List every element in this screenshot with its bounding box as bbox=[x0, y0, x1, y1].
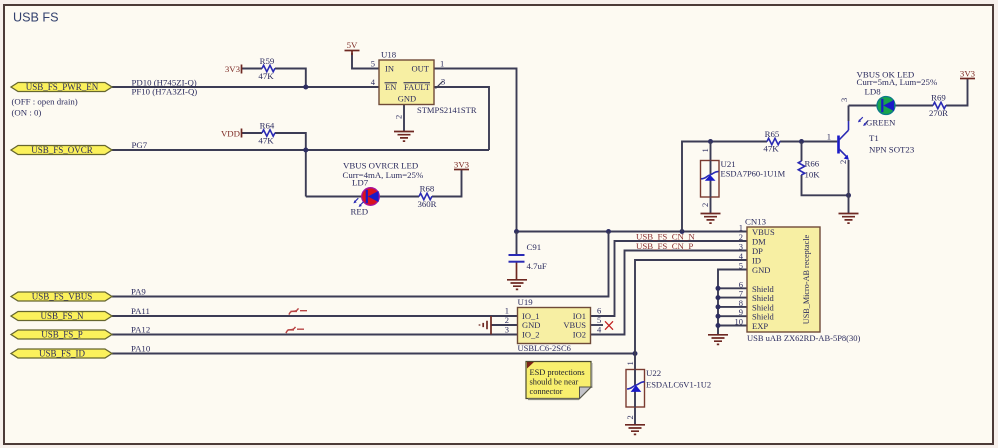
ground under U18 bbox=[394, 132, 414, 142]
svg-text:2: 2 bbox=[394, 115, 404, 119]
power 3V3 at R68 bbox=[454, 160, 470, 170]
svg-text:U21: U21 bbox=[721, 159, 736, 169]
node label PG7 bbox=[132, 140, 148, 150]
note ESD sticky bbox=[526, 362, 592, 400]
svg-text:USB_FS_CN_P: USB_FS_CN_P bbox=[636, 241, 693, 251]
svg-text:VBUS: VBUS bbox=[563, 320, 586, 330]
svg-text:USB_FS_OVCR: USB_FS_OVCR bbox=[31, 145, 93, 155]
wire USB_FS_OVCR row to FAULT corner bbox=[112, 149, 489, 151]
LED LD7 bbox=[343, 161, 424, 217]
wire CN13 GND pin 5 to shield chain bbox=[718, 270, 747, 335]
resistor R68 bbox=[417, 184, 436, 210]
ground under U21 bbox=[701, 214, 721, 224]
wire CN13 shield stubs bbox=[718, 288, 747, 325]
svg-text:U19: U19 bbox=[518, 297, 534, 307]
svg-text:47K: 47K bbox=[763, 144, 779, 154]
wire U19 GND pin 2 stub bbox=[491, 324, 518, 326]
svg-text:47K: 47K bbox=[258, 136, 274, 146]
svg-text:PA9: PA9 bbox=[131, 287, 146, 297]
ground under C91 bbox=[507, 280, 527, 290]
node label PD10/PF10 on PWR_EN wire bbox=[132, 78, 198, 97]
node label PA9 bbox=[131, 287, 146, 297]
port USB_FS_OVCR bbox=[11, 145, 112, 155]
svg-text:5: 5 bbox=[597, 315, 601, 325]
resistor R69 bbox=[929, 93, 948, 119]
wire C91 stems bbox=[516, 232, 518, 280]
svg-text:5V: 5V bbox=[347, 40, 358, 50]
svg-text:1: 1 bbox=[625, 361, 635, 365]
wire USB_FS_P PA12 row to U19 IO_2 bbox=[112, 334, 518, 336]
svg-text:360R: 360R bbox=[417, 199, 436, 209]
svg-text:2: 2 bbox=[838, 160, 848, 164]
svg-text:PA10: PA10 bbox=[131, 344, 151, 354]
svg-text:T1: T1 bbox=[869, 133, 879, 143]
svg-text:PA11: PA11 bbox=[131, 306, 150, 316]
svg-text:USB_Micro-AB receptacle: USB_Micro-AB receptacle bbox=[802, 234, 811, 324]
transient suppressor U21 bbox=[700, 148, 786, 207]
svg-text:IN: IN bbox=[385, 64, 394, 74]
wire U22 to ground stem bbox=[634, 407, 636, 425]
svg-text:R66: R66 bbox=[805, 159, 820, 169]
svg-text:RED: RED bbox=[351, 207, 369, 217]
svg-text:R65: R65 bbox=[765, 129, 780, 139]
wire USB_FS_ID PA10 row bbox=[112, 353, 635, 355]
title USB FS bbox=[13, 11, 59, 25]
svg-text:FAULT: FAULT bbox=[404, 82, 431, 92]
svg-text:VBUS OVRCR LED: VBUS OVRCR LED bbox=[343, 161, 418, 171]
node junction R59/PWR_EN bbox=[303, 85, 308, 90]
svg-text:U18: U18 bbox=[381, 50, 397, 60]
svg-text:Curr=5mA, Lum=25%: Curr=5mA, Lum=25% bbox=[857, 77, 938, 87]
svg-text:2: 2 bbox=[700, 203, 710, 207]
transistor T1 bbox=[827, 98, 915, 164]
capacitor C91 bbox=[509, 242, 547, 271]
transient suppressor U22 bbox=[625, 361, 711, 419]
svg-text:PG7: PG7 bbox=[132, 140, 148, 150]
node junction VBUS riser bbox=[606, 229, 611, 234]
svg-text:connector: connector bbox=[530, 387, 563, 396]
svg-text:ESDALC6V1-1U2: ESDALC6V1-1U2 bbox=[646, 380, 711, 390]
svg-text:R69: R69 bbox=[931, 93, 946, 103]
svg-text:EXP: EXP bbox=[752, 321, 768, 331]
svg-text:DM: DM bbox=[752, 237, 766, 247]
wire U19 pin 4 riser to USB_FS_CN_P row CN13 pin 3 bbox=[591, 251, 748, 335]
svg-text:LD8: LD8 bbox=[865, 86, 882, 96]
svg-text:DP: DP bbox=[752, 246, 763, 256]
wire U18 FAULT pin 3 down to OVCR row bbox=[434, 87, 489, 150]
port USB_FS_N bbox=[11, 311, 112, 321]
svg-text:USB_FS_N: USB_FS_N bbox=[40, 311, 84, 321]
svg-text:1: 1 bbox=[505, 306, 509, 316]
svg-text:2: 2 bbox=[505, 315, 509, 325]
svg-text:STMPS2141STR: STMPS2141STR bbox=[417, 105, 477, 115]
port USB_FS_PWR_EN bbox=[11, 82, 112, 92]
svg-text:5: 5 bbox=[371, 59, 375, 69]
svg-text:Curr=4mA, Lum=25%: Curr=4mA, Lum=25% bbox=[343, 170, 424, 180]
power VDD at R64 bbox=[221, 129, 242, 139]
node junction ID/U22 bbox=[633, 351, 638, 356]
svg-text:3V3: 3V3 bbox=[454, 160, 470, 170]
svg-text:R59: R59 bbox=[260, 56, 275, 66]
wire VBUS row C91 to CN13 pin 1 bbox=[517, 231, 748, 233]
svg-text:C91: C91 bbox=[527, 242, 542, 252]
svg-text:3: 3 bbox=[505, 325, 509, 335]
resistor R64 bbox=[258, 121, 275, 146]
svg-text:GND: GND bbox=[522, 320, 540, 330]
wire T1 emitter to ground bbox=[848, 160, 850, 214]
ground under CN13 shield chain bbox=[708, 335, 728, 345]
svg-text:R68: R68 bbox=[420, 184, 435, 194]
svg-text:4.7uF: 4.7uF bbox=[527, 261, 547, 271]
wire R65 row bbox=[682, 142, 837, 232]
svg-text:6: 6 bbox=[597, 306, 601, 316]
resistor R65 bbox=[763, 129, 780, 154]
svg-text:IO2: IO2 bbox=[573, 330, 586, 340]
connector CN13 bbox=[735, 217, 861, 344]
svg-text:2: 2 bbox=[739, 232, 743, 242]
wire U19 pin 5 stub bbox=[591, 324, 604, 326]
node junction C91/OUT bbox=[514, 229, 519, 234]
wire R66 stems and bottom row to emitter bbox=[802, 142, 849, 196]
node junctions shield chain bbox=[716, 286, 721, 328]
svg-text:ID: ID bbox=[752, 256, 761, 266]
svg-text:USB_FS_CN_N: USB_FS_CN_N bbox=[636, 231, 695, 241]
power 3V3 at R59 bbox=[225, 64, 242, 74]
svg-text:NPN SOT23: NPN SOT23 bbox=[869, 145, 915, 155]
node junction emitter/R66 bbox=[846, 193, 851, 198]
wire USB_FS_VBUS PA9 row riser bbox=[112, 232, 609, 297]
svg-text:3V3: 3V3 bbox=[960, 69, 976, 79]
port USB_FS_P bbox=[11, 330, 112, 340]
net label USB_FS_CN_P bbox=[636, 241, 693, 251]
svg-text:ESDA7P60-1U1M: ESDA7P60-1U1M bbox=[721, 169, 786, 179]
wire 3V3 to R59 to PWR_EN net bbox=[242, 69, 306, 88]
svg-text:USB_FS_ID: USB_FS_ID bbox=[39, 349, 86, 359]
svg-text:U22: U22 bbox=[646, 368, 661, 378]
svg-text:3: 3 bbox=[739, 242, 743, 252]
svg-text:CN13: CN13 bbox=[745, 217, 767, 227]
svg-text:GREEN: GREEN bbox=[866, 118, 896, 128]
svg-text:VDD: VDD bbox=[221, 129, 240, 139]
svg-text:GND: GND bbox=[398, 94, 416, 104]
wire U18 GND pin 2 stub bbox=[403, 105, 405, 132]
svg-text:USBLC6-2SC6: USBLC6-2SC6 bbox=[518, 343, 571, 353]
ground under U22 bbox=[625, 425, 645, 435]
node label PA12 bbox=[131, 325, 150, 335]
note OFF/ON comment bbox=[12, 97, 78, 118]
svg-text:PF10 (H7A3ZI-Q): PF10 (H7A3ZI-Q) bbox=[132, 87, 198, 97]
svg-text:3V3: 3V3 bbox=[225, 64, 241, 74]
svg-text:1: 1 bbox=[827, 132, 831, 142]
port USB_FS_ID bbox=[11, 349, 112, 359]
svg-text:10: 10 bbox=[735, 317, 744, 327]
node junction R65 riser bbox=[680, 229, 685, 234]
port USB_FS_VBUS bbox=[11, 292, 112, 302]
svg-text:1: 1 bbox=[440, 59, 444, 69]
svg-text:should be near: should be near bbox=[530, 378, 579, 387]
resistor R66 bbox=[798, 159, 820, 180]
power 3V3 at R69 bbox=[960, 69, 976, 79]
svg-text:47K: 47K bbox=[258, 71, 274, 81]
svg-text:(ON : 0): (ON : 0) bbox=[12, 108, 42, 118]
svg-text:R64: R64 bbox=[260, 121, 275, 131]
wire U18 OUT pin 1 down to VBUS row bbox=[434, 69, 517, 232]
svg-text:GND: GND bbox=[752, 265, 770, 275]
no-connect X at U19 pin 5 bbox=[605, 321, 613, 329]
wire 5V to U18 IN pin 5 bbox=[352, 53, 379, 69]
net label USB_FS_CN_N bbox=[636, 231, 695, 241]
svg-text:PA12: PA12 bbox=[131, 325, 150, 335]
svg-text:1: 1 bbox=[700, 148, 710, 152]
svg-text:270R: 270R bbox=[929, 108, 948, 118]
svg-text:2: 2 bbox=[625, 415, 635, 419]
resistor R59 bbox=[258, 56, 275, 81]
wire U21 pin stems bbox=[710, 142, 712, 214]
wire T1 collector to LED row bbox=[848, 106, 850, 122]
power 5V bbox=[345, 40, 360, 55]
node junction R64/OVCR bbox=[303, 148, 308, 153]
svg-text:3: 3 bbox=[839, 98, 849, 102]
svg-text:USB FS: USB FS bbox=[13, 11, 59, 25]
ground sideways at U19 pin 2 bbox=[480, 316, 492, 335]
differential pair mark PA11 bbox=[289, 308, 307, 314]
svg-text:1: 1 bbox=[739, 223, 743, 233]
wire LD8 LED row to R69 to 3V3 bbox=[849, 79, 968, 106]
svg-text:ESD protections: ESD protections bbox=[530, 368, 585, 377]
wire USB_FS_PWR_EN row to U18 EN bbox=[112, 86, 379, 88]
svg-text:USB_FS_VBUS: USB_FS_VBUS bbox=[32, 292, 93, 302]
svg-text:OUT: OUT bbox=[412, 64, 430, 74]
node junction U21 tap bbox=[708, 139, 713, 144]
svg-text:10K: 10K bbox=[805, 170, 821, 180]
wire VDD to R64 to OVCR net and down to LED branch bbox=[242, 133, 306, 197]
wire LD7 LED row to R68 to 3V3 bbox=[306, 170, 462, 197]
differential pair mark PA12 bbox=[286, 327, 304, 333]
ground under T1 emitter bbox=[839, 214, 859, 224]
svg-text:USB uAB ZX62RD-AB-5P8(30): USB uAB ZX62RD-AB-5P8(30) bbox=[747, 333, 861, 343]
svg-text:EN: EN bbox=[385, 82, 396, 92]
node junction R66 tap bbox=[799, 139, 804, 144]
svg-text:USB_FS_PWR_EN: USB_FS_PWR_EN bbox=[26, 82, 99, 92]
node label PA10 bbox=[131, 344, 151, 354]
svg-text:5: 5 bbox=[739, 261, 743, 271]
op-amp U18 voltage switch box bbox=[371, 50, 477, 120]
LED LD8 bbox=[857, 70, 938, 128]
wire ID riser to CN13 pin 4 row bbox=[635, 260, 747, 370]
svg-text:VBUS: VBUS bbox=[752, 227, 775, 237]
op-amp U19 ESD filter box bbox=[505, 297, 602, 353]
svg-text:(OFF : open drain): (OFF : open drain) bbox=[12, 97, 78, 107]
wire U19 pin 6 riser to USB_FS_CN_N row CN13 pin 2 bbox=[591, 241, 748, 316]
node label PA11 bbox=[131, 306, 150, 316]
svg-text:USB_FS_P: USB_FS_P bbox=[41, 330, 83, 340]
wire USB_FS_N PA11 row to U19 IO_1 bbox=[112, 315, 518, 317]
svg-text:IO_2: IO_2 bbox=[522, 330, 539, 340]
